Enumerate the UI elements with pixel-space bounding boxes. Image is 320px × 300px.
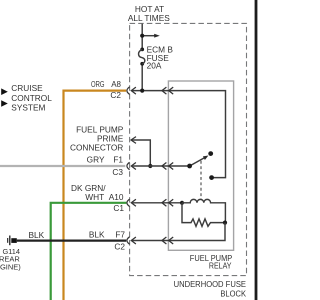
svg-text:ENGINE): ENGINE) <box>0 263 21 272</box>
label GRY F1 <box>87 155 124 165</box>
svg-text:CRUISE: CRUISE <box>11 83 43 93</box>
svg-text:C2: C2 <box>110 90 121 100</box>
wire ORG A8 (orange) <box>64 91 127 300</box>
wire green circuit inside fuse block to relay coil <box>131 202 182 204</box>
wire coil return to ground exit <box>131 223 225 241</box>
wire GRY F1 (gray) <box>0 165 125 167</box>
svg-text:WHT: WHT <box>85 192 104 202</box>
svg-text:F7: F7 <box>115 230 125 240</box>
node branch arrow at B+ junction <box>140 34 160 38</box>
svg-text:RELAY: RELAY <box>209 261 232 271</box>
relay coil (inductor) <box>182 199 225 222</box>
connector C1 pin A10 (dashed boundary) <box>127 199 136 206</box>
svg-text:CONTROL: CONTROL <box>11 93 52 103</box>
relay switch upper contact <box>208 151 213 156</box>
fuse ECM B FUSE 20A <box>139 48 145 66</box>
connector C2 pin A8 (dashed boundary) <box>127 87 136 94</box>
svg-text:ORG: ORG <box>91 80 105 89</box>
node branch arrow to cruise control (lower) <box>1 100 8 107</box>
label UNDERHOOD FUSE BLOCK <box>174 279 247 298</box>
node branch arrow to cruise control (upper) <box>1 88 8 95</box>
svg-text:C1: C1 <box>113 203 124 213</box>
wire BLK F7 (black) <box>17 240 126 242</box>
label ECM B FUSE 20A <box>147 44 174 70</box>
connector arrows at relay box pin 1 <box>162 87 173 94</box>
wire feed from dashed boundary to fuse <box>141 24 143 91</box>
wire fuel pump prime connector tap <box>131 137 152 168</box>
node coil input junction <box>180 201 184 205</box>
connector arrows at relay box pin 3 <box>162 199 173 206</box>
svg-text:BLOCK: BLOCK <box>220 289 246 299</box>
resistor (parallel with coil) <box>182 203 225 227</box>
svg-text:F1: F1 <box>113 155 123 165</box>
wire gray circuit inside fuse block to relay <box>131 165 189 167</box>
label DK GRN/ WHT A10 <box>71 183 124 202</box>
svg-text:A8: A8 <box>111 80 121 89</box>
wire DK GRN/WHT A10 (green) <box>51 203 127 300</box>
svg-text:C3: C3 <box>112 167 123 177</box>
svg-text:20A: 20A <box>147 61 162 71</box>
node junction fuse output <box>140 89 144 93</box>
svg-text:SYSTEM: SYSTEM <box>11 102 45 112</box>
label G114 (REAR ENGINE) <box>0 247 21 272</box>
svg-text:A10: A10 <box>109 192 124 202</box>
label ORG A8 <box>91 80 122 89</box>
underhood fuse block dashed boundary <box>130 23 247 275</box>
connector arrows at relay box pin 2 <box>162 163 173 170</box>
svg-text:ALL TIMES: ALL TIMES <box>128 13 170 23</box>
label BLK F7 <box>89 230 126 240</box>
label FUEL PUMP RELAY <box>190 253 233 271</box>
relay switch lower contact (B+) <box>209 175 214 180</box>
svg-text:BLK: BLK <box>29 230 45 240</box>
connector arrows at relay box pin 4 <box>162 237 173 244</box>
label CRUISE CONTROL SYSTEM <box>11 83 52 112</box>
relay box outline (fuel pump relay) <box>168 81 233 250</box>
svg-text:GRY: GRY <box>87 155 105 165</box>
label HOT AT ALL TIMES <box>128 4 170 23</box>
connector C3 pin F1 (dashed boundary) <box>127 162 136 169</box>
label FUEL PUMP PRIME CONNECTOR <box>70 124 124 152</box>
node B+ heavy bus bar (right vertical black bar) <box>255 0 258 300</box>
ground G114 <box>8 236 17 246</box>
relay switch blade <box>187 156 208 169</box>
svg-text:BLK: BLK <box>89 230 105 240</box>
node coil output junction <box>223 221 227 225</box>
svg-text:CONNECTOR: CONNECTOR <box>70 143 123 153</box>
svg-text:C2: C2 <box>114 242 125 252</box>
connector C2 pin F7 (dashed boundary) <box>127 237 136 244</box>
wire B+ feed horizontal to relay <box>131 91 225 178</box>
relay actuator dashed link <box>200 161 202 200</box>
